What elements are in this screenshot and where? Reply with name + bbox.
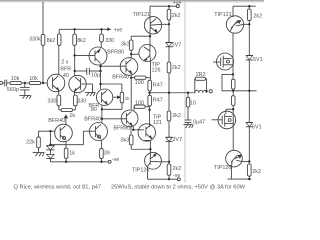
svg-text:2V7: 2V7 (172, 137, 182, 143)
svg-text:BFR40: BFR40 (84, 117, 101, 123)
svg-text:330: 330 (48, 98, 57, 104)
svg-text:Q Rice, wireless world, oct 81: Q Rice, wireless world, oct 81, p47 (14, 184, 102, 190)
svg-text:10k: 10k (11, 76, 20, 82)
svg-text:1k: 1k (125, 96, 131, 101)
svg-text:TIP126: TIP126 (132, 167, 149, 173)
svg-text:121: 121 (153, 120, 162, 126)
svg-text:10k: 10k (29, 76, 38, 82)
svg-text:25W/uS, stable down to 2 ohms,: 25W/uS, stable down to 2 ohms, +50V @ 3A… (111, 184, 246, 190)
svg-text:BFR80: BFR80 (107, 49, 124, 55)
svg-text:10: 10 (190, 100, 196, 106)
svg-text:2V7: 2V7 (172, 42, 182, 48)
svg-text:10µ: 10µ (91, 72, 100, 78)
svg-text:39: 39 (104, 151, 110, 157)
svg-text:TIP121: TIP121 (133, 12, 150, 18)
svg-text:560p: 560p (7, 87, 19, 93)
svg-text:1k: 1k (69, 151, 75, 157)
svg-text:2k2: 2k2 (253, 13, 262, 19)
svg-text:1k: 1k (69, 113, 75, 119)
svg-text:330k: 330k (29, 36, 41, 42)
svg-text:-ve: -ve (112, 157, 120, 163)
svg-text:BFR40: BFR40 (112, 75, 129, 81)
svg-text:2k2: 2k2 (172, 65, 181, 71)
svg-text:R47: R47 (153, 98, 163, 104)
svg-text:80: 80 (91, 107, 97, 113)
svg-text:2R2: 2R2 (196, 72, 206, 78)
svg-text:3k3: 3k3 (121, 137, 130, 143)
svg-text:0µ47: 0µ47 (193, 120, 205, 126)
svg-text:330: 330 (77, 98, 86, 104)
svg-text:BFR: BFR (60, 66, 71, 72)
svg-text:8k2: 8k2 (47, 38, 56, 44)
svg-text:3k3: 3k3 (121, 41, 130, 47)
svg-text:330: 330 (105, 38, 114, 44)
svg-text:8k2: 8k2 (77, 38, 86, 44)
svg-text:2k2: 2k2 (172, 113, 181, 119)
svg-text:-ve: -ve (173, 173, 181, 179)
svg-text:5V1: 5V1 (252, 125, 262, 131)
svg-text:BFR40: BFR40 (48, 118, 65, 124)
svg-text:+ve: +ve (173, 0, 182, 6)
svg-text:100: 100 (135, 80, 144, 86)
svg-text:126: 126 (152, 67, 161, 73)
svg-text:TIP121: TIP121 (214, 12, 231, 18)
svg-text:2k2: 2k2 (252, 169, 261, 175)
svg-text:22k: 22k (26, 139, 35, 145)
svg-text:100: 100 (135, 101, 144, 107)
svg-text:40: 40 (63, 73, 69, 79)
svg-text:2k2: 2k2 (173, 166, 182, 172)
svg-text:2k2: 2k2 (172, 13, 181, 19)
svg-text:5V1: 5V1 (253, 57, 263, 63)
svg-text:R47: R47 (153, 83, 163, 89)
svg-text:+ve: +ve (114, 27, 123, 33)
svg-text:2 x: 2 x (61, 60, 68, 66)
svg-text:TIP126: TIP126 (214, 165, 231, 171)
svg-text:BFR80: BFR80 (113, 125, 130, 131)
